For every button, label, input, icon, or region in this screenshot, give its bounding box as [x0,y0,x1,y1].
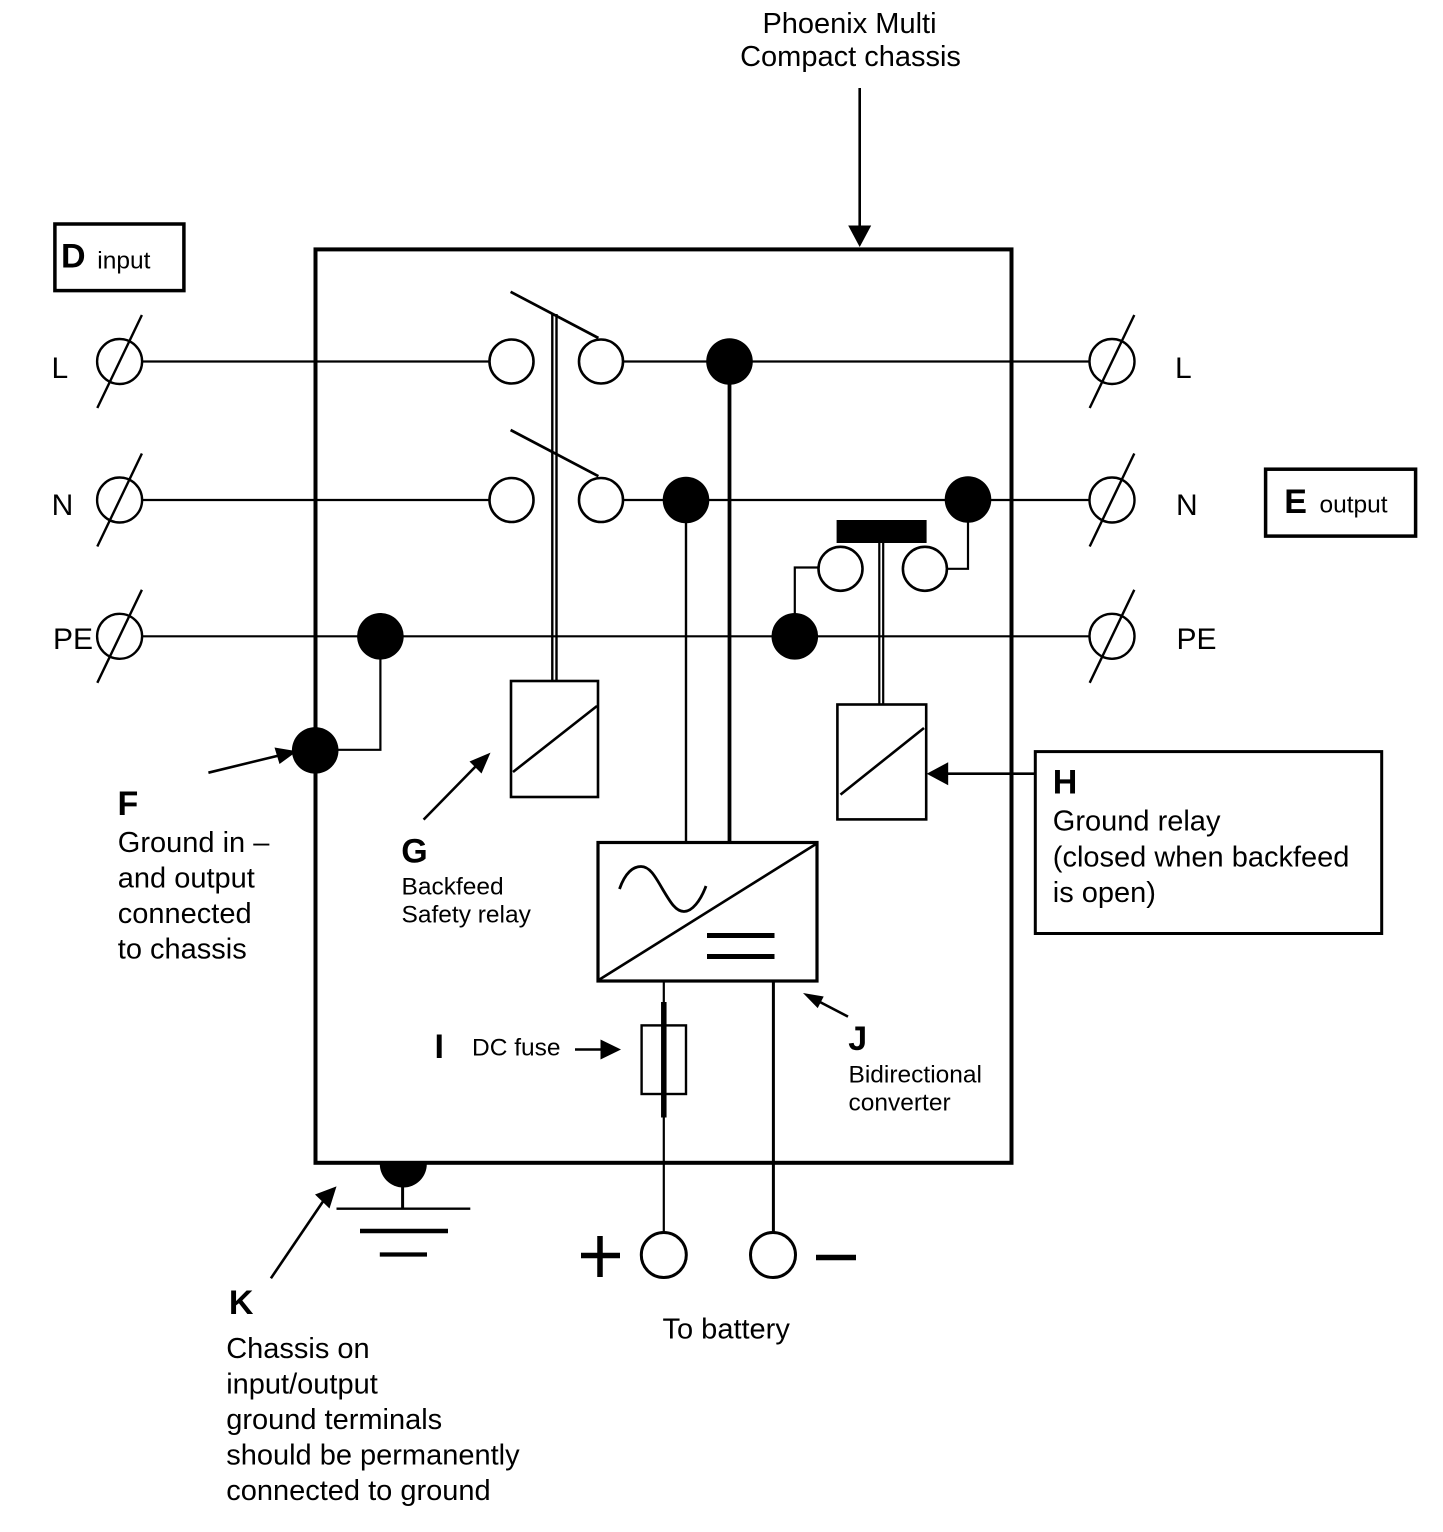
svg-text:Chassis on: Chassis on [226,1333,369,1365]
svg-text:DC fuse: DC fuse [472,1035,561,1062]
label K text block [226,1284,520,1507]
svg-text:converter: converter [849,1090,951,1117]
chassis ground stem [401,1182,404,1209]
svg-text:PE: PE [1177,623,1217,656]
wire L input segment [142,360,490,362]
backfeed relay contact N right [579,478,623,522]
svg-text:N: N [52,489,74,522]
wire converter to fuse [663,981,665,1006]
minus sign [816,1255,856,1261]
backfeed relay contact L left [490,340,534,384]
output terminal PE [1090,590,1135,683]
battery terminal minus [751,1233,796,1278]
wire PE node2 to ground relay contact [795,568,819,637]
wire PE full run [142,635,1090,637]
relay coil G backfeed safety relay [511,681,598,797]
svg-text:input: input [97,248,150,275]
chassis ground bar 1 [337,1207,471,1209]
svg-text:connected to ground: connected to ground [226,1475,490,1507]
arrow to G relay [424,753,491,820]
svg-text:(closed when backfeed: (closed when backfeed [1053,841,1350,873]
svg-text:Safety relay: Safety relay [402,901,532,928]
svg-text:Phoenix Multi: Phoenix Multi [762,8,936,40]
wire PE node1 to F node [315,636,380,750]
chassis ground bar 2 [360,1229,448,1234]
svg-text:is open): is open) [1053,877,1156,909]
wire converter to battery minus [772,981,775,1233]
input terminal N [97,454,142,547]
title: Phoenix Multi Compact chassis [740,8,961,73]
label box D input [55,224,184,291]
svg-text:Backfeed: Backfeed [402,873,504,900]
backfeed relay contact L right [579,340,623,384]
svg-text:connected: connected [118,898,252,930]
wire L node to converter [728,362,732,844]
label I DC fuse with arrow [435,1028,622,1066]
svg-text:F: F [118,785,139,823]
svg-text:ground terminals: ground terminals [226,1404,442,1436]
wire N node1 to converter [685,500,687,843]
svg-text:Compact chassis: Compact chassis [740,41,961,73]
backfeed relay blade L [511,292,599,338]
svg-text:G: G [401,832,427,870]
svg-text:To battery: To battery [663,1314,791,1346]
backfeed relay blade N [511,430,599,476]
svg-text:D: D [61,237,86,275]
wire N input segment [142,499,490,501]
svg-text:I: I [435,1028,444,1066]
arrow from H label to relay coil [927,762,1034,785]
label box H ground relay [1035,752,1381,934]
label G text block [401,832,531,928]
node PE junction 2 [772,613,819,660]
node N junction 1 [663,477,710,524]
svg-text:K: K [229,1284,254,1322]
svg-text:Bidirectional: Bidirectional [849,1062,982,1089]
node L junction [706,338,753,385]
input terminal PE [97,590,142,683]
ground relay closed contact bar [837,520,927,543]
wire fuse to battery plus [663,1118,665,1233]
arrow to J converter [803,993,848,1017]
arrow from title to chassis top [848,88,871,247]
arrow to F node [208,748,297,773]
label box E output [1266,469,1416,536]
svg-text:L: L [1175,352,1192,385]
svg-text:L: L [52,352,69,385]
chassis ground bar 3 [380,1252,427,1256]
wire N output segment [624,499,1090,501]
battery terminal plus [641,1233,686,1278]
svg-text:output: output [1320,491,1388,518]
svg-text:and output: and output [118,862,255,894]
svg-text:to chassis: to chassis [118,933,247,965]
svg-text:N: N [1176,489,1198,522]
chassis outline box [316,249,1012,1162]
arrow to chassis ground symbol K [271,1186,337,1278]
fuse I body [642,1025,686,1094]
node PE junction 1 [357,613,404,660]
backfeed relay contact N left [490,478,534,522]
svg-text:Ground relay: Ground relay [1053,806,1221,838]
input terminal L [97,315,142,408]
svg-text:Ground in –: Ground in – [118,827,270,859]
node N junction 2 [945,476,992,523]
output terminal L [1090,315,1135,408]
wire L output segment [624,360,1090,362]
wire N node2 to ground relay contact [948,500,969,569]
label J text block [848,1020,982,1117]
chassis ground dome node [380,1164,427,1188]
svg-text:input/output: input/output [226,1369,378,1401]
output terminal N [1090,454,1135,547]
svg-text:should be permanently: should be permanently [226,1439,520,1471]
converter J bidirectional converter box [598,843,817,982]
node F chassis junction [292,727,339,774]
svg-text:H: H [1053,764,1078,802]
label F text block [118,785,271,966]
backfeed relay actuator double link [552,314,556,681]
svg-text:J: J [848,1020,867,1058]
svg-text:PE: PE [53,623,93,656]
svg-text:E: E [1284,483,1307,521]
ground relay actuator double link [879,543,883,705]
ground relay contact circle right [903,547,947,591]
plus sign [581,1236,620,1277]
relay coil H ground relay [837,705,926,820]
fuse I element thick wire [661,1002,667,1118]
ground relay contact circle left [819,547,863,591]
